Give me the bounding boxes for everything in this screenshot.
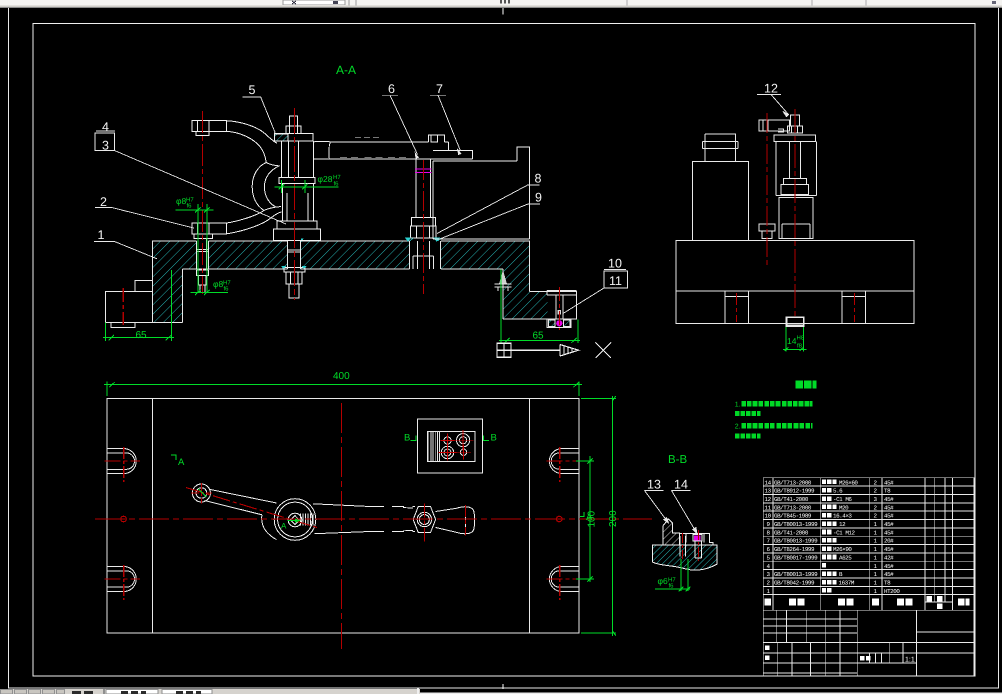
green A section marks bbox=[178, 457, 593, 531]
svg-text:3: 3 bbox=[102, 139, 109, 153]
svg-text:14: 14 bbox=[765, 479, 772, 486]
svg-text:H7: H7 bbox=[223, 280, 231, 287]
boss body lower bbox=[283, 183, 314, 221]
svg-text:1: 1 bbox=[98, 228, 105, 242]
svg-text:GB/T8042-1999: GB/T8042-1999 bbox=[774, 580, 815, 587]
right foot pin bottom box bbox=[547, 319, 571, 327]
table header blobs bbox=[765, 596, 970, 609]
svg-text:45#: 45# bbox=[884, 571, 894, 578]
pin nut below plate bbox=[196, 269, 208, 293]
lower column bbox=[779, 197, 813, 238]
arm after hex to end blob bbox=[436, 508, 457, 532]
clamp stud right (item 8/9 zone) bbox=[416, 159, 430, 218]
fork big mouth inner curve bbox=[264, 166, 279, 207]
svg-text:8: 8 bbox=[535, 172, 542, 186]
svg-text:GB/T80013-1999: GB/T80013-1999 bbox=[774, 571, 818, 578]
bottom model/layout tab strip bbox=[0, 688, 1002, 694]
svg-text:f6: f6 bbox=[187, 203, 193, 210]
left foot block bbox=[106, 281, 153, 323]
fork pivot pin body bbox=[198, 238, 206, 268]
red centerlines right view bbox=[736, 109, 854, 322]
right foot lip bbox=[547, 291, 576, 295]
pressure bar (item 6) bbox=[313, 135, 472, 241]
svg-text:φ28: φ28 bbox=[318, 174, 333, 184]
svg-text:4: 4 bbox=[102, 120, 109, 134]
fork bottom prong curves bbox=[226, 211, 264, 224]
svg-text:M20: M20 bbox=[839, 504, 849, 511]
svg-text:φ6: φ6 bbox=[658, 576, 669, 586]
fork top prong curves bbox=[226, 121, 276, 143]
svg-text:10: 10 bbox=[765, 513, 772, 520]
washer under fork pad (item 2) bbox=[194, 234, 212, 238]
left lower U-slot bbox=[107, 567, 137, 592]
name-column CJK blobs bbox=[822, 480, 837, 593]
svg-text:45#: 45# bbox=[884, 504, 894, 511]
svg-text:M26×60: M26×60 bbox=[839, 479, 858, 486]
svg-text:45#: 45# bbox=[884, 563, 894, 570]
boss sleeve (item 3) and clamp stud (item 5) bbox=[274, 116, 321, 298]
hatched base chunk bbox=[652, 545, 717, 570]
svg-text:13: 13 bbox=[647, 478, 661, 492]
dim phi28 bbox=[275, 180, 339, 193]
window divider tick top bbox=[502, 8, 504, 15]
svg-text:5.6: 5.6 bbox=[833, 488, 843, 495]
right support block (item 7 zone) bbox=[433, 147, 530, 239]
svg-text:A-A: A-A bbox=[336, 63, 356, 77]
svg-text:f6: f6 bbox=[669, 583, 675, 590]
svg-text:H7: H7 bbox=[186, 197, 194, 204]
fork top pad bbox=[192, 121, 226, 136]
svg-text:H8: H8 bbox=[797, 335, 805, 342]
boss body upper bbox=[281, 141, 313, 177]
workpiece lever in plan bbox=[192, 484, 474, 540]
green dimensions A-A bbox=[103, 180, 580, 343]
svg-text:φ8: φ8 bbox=[176, 196, 187, 206]
cyan chips at plate top near stud bbox=[406, 238, 441, 241]
svg-text:T8: T8 bbox=[884, 488, 891, 495]
svg-text:HT200: HT200 bbox=[884, 588, 900, 595]
svg-text:f8: f8 bbox=[797, 343, 803, 350]
svg-text:B-B: B-B bbox=[668, 454, 688, 466]
green dim B-B bbox=[655, 559, 690, 592]
svg-text:-C1 M12: -C1 M12 bbox=[833, 529, 856, 536]
svg-text:12: 12 bbox=[764, 82, 778, 96]
right long arm bbox=[313, 504, 370, 534]
svg-text:A: A bbox=[178, 457, 185, 468]
svg-text:GB/T80017-1999: GB/T80017-1999 bbox=[774, 554, 818, 561]
svg-text:2.: 2. bbox=[735, 423, 741, 430]
screw 14 bbox=[693, 535, 702, 542]
green dims plan bbox=[104, 382, 616, 637]
clamp stud pocket bbox=[410, 241, 441, 269]
svg-text:45#: 45# bbox=[884, 529, 894, 536]
green 14H8 dim bbox=[783, 327, 807, 351]
svg-text:45#: 45# bbox=[884, 513, 894, 520]
left foot bottom pad bbox=[111, 322, 135, 327]
svg-text:9: 9 bbox=[535, 191, 542, 205]
right foot pin bore bbox=[556, 295, 563, 319]
svg-text:12: 12 bbox=[765, 496, 772, 503]
svg-text:5: 5 bbox=[249, 83, 256, 97]
svg-text:GB/T8912-1999: GB/T8912-1999 bbox=[774, 488, 815, 495]
red centerlines plan bbox=[95, 403, 652, 649]
svg-text:T8: T8 bbox=[884, 580, 891, 587]
svg-text:M26×90: M26×90 bbox=[833, 546, 852, 553]
window divider tick bottom bbox=[502, 684, 504, 689]
right lower U-slot bbox=[549, 567, 579, 592]
boss base bbox=[274, 221, 321, 240]
part labels A-A bbox=[94, 95, 628, 313]
dim phi8 fork pin upper bbox=[176, 204, 214, 293]
svg-text:H7: H7 bbox=[333, 174, 341, 181]
svg-text:GB/T845-1989: GB/T845-1989 bbox=[774, 513, 812, 520]
svg-text:11: 11 bbox=[609, 274, 622, 288]
svg-text:GB/T8264-1999: GB/T8264-1999 bbox=[774, 546, 815, 553]
svg-text:1:1: 1:1 bbox=[905, 657, 915, 664]
svg-text:45#: 45# bbox=[884, 496, 894, 503]
small adjuster left bbox=[759, 224, 775, 239]
left support block bbox=[692, 161, 748, 240]
svg-text:45#: 45# bbox=[884, 546, 894, 553]
dim phi8 lower bbox=[191, 290, 229, 295]
svg-text:f6: f6 bbox=[224, 286, 230, 293]
fork big mouth outer curve bbox=[252, 163, 266, 211]
svg-text:GB/T713-2000: GB/T713-2000 bbox=[774, 504, 812, 511]
hidden dashes on bar bbox=[340, 156, 408, 158]
svg-text:A: A bbox=[586, 512, 593, 523]
hex nut on arm bbox=[413, 507, 435, 533]
B detail box bbox=[418, 419, 483, 473]
stud tip and nut bbox=[290, 116, 298, 126]
pin hole bbox=[680, 536, 685, 557]
svg-text:GB/T713-2000: GB/T713-2000 bbox=[774, 479, 812, 486]
serration comb bbox=[301, 513, 314, 525]
holes in plate (black gaps) bbox=[196, 240, 441, 271]
magenta pin dot bbox=[556, 320, 562, 326]
base block lower band with notches bbox=[676, 291, 914, 323]
svg-text:7: 7 bbox=[436, 82, 443, 96]
svg-text:200: 200 bbox=[608, 510, 619, 527]
boss mid flange bbox=[279, 178, 315, 184]
left support cap bbox=[703, 134, 739, 161]
middle stud hole walls bbox=[288, 241, 301, 269]
small bolt at right step bbox=[499, 270, 507, 284]
svg-text:A: A bbox=[281, 522, 287, 531]
base block upper bbox=[676, 241, 914, 292]
outline bbox=[153, 241, 577, 322]
svg-text:1637M: 1637M bbox=[839, 580, 855, 587]
svg-text:400: 400 bbox=[333, 371, 350, 382]
cyan hatched wedge at collar left bbox=[275, 134, 289, 141]
green center marks bbox=[198, 489, 301, 523]
svg-text:GB/T80013-1999: GB/T80013-1999 bbox=[774, 521, 818, 528]
left pin hole walls bbox=[196, 241, 208, 269]
stud washer+nut below plate bbox=[284, 267, 305, 298]
svg-text:GB/T41-2000: GB/T41-2000 bbox=[774, 496, 809, 503]
svg-text:GB/T80013-1999: GB/T80013-1999 bbox=[774, 538, 818, 545]
svg-text:10: 10 bbox=[608, 257, 622, 271]
svg-text:45#: 45# bbox=[884, 521, 894, 528]
wedge block item 13 bbox=[663, 519, 680, 545]
fork workpiece (item 4) bbox=[192, 121, 281, 293]
svg-text:B: B bbox=[491, 433, 497, 444]
svg-text:6: 6 bbox=[388, 82, 395, 96]
svg-text:20#: 20# bbox=[884, 538, 894, 545]
bolt below base bbox=[786, 317, 803, 325]
svg-text:42#: 42# bbox=[884, 554, 894, 561]
toolbar remnant strip at top bbox=[0, 0, 1002, 8]
svg-text:16.4×3: 16.4×3 bbox=[833, 513, 852, 520]
right 65 dim bbox=[499, 270, 580, 344]
left 65 dim bbox=[103, 270, 174, 341]
boss collar bbox=[275, 134, 314, 142]
svg-text:12: 12 bbox=[839, 521, 846, 528]
svg-text:A625: A625 bbox=[839, 554, 852, 561]
svg-text:φ8: φ8 bbox=[213, 279, 224, 289]
fork bottom pad bbox=[192, 223, 226, 234]
svg-text:f6: f6 bbox=[334, 181, 340, 188]
spring housing cylinder bbox=[774, 135, 815, 141]
svg-text:GB/T41-2000: GB/T41-2000 bbox=[774, 529, 809, 536]
label 12 bbox=[757, 95, 789, 117]
svg-text:65: 65 bbox=[533, 331, 545, 342]
base plate hatched main slab bbox=[153, 241, 577, 322]
svg-text:14: 14 bbox=[674, 478, 688, 492]
svg-text:1.: 1. bbox=[735, 402, 741, 409]
right upper U-slot bbox=[549, 449, 579, 474]
svg-text:B: B bbox=[404, 433, 410, 444]
red centerlines A-A bbox=[123, 108, 559, 330]
arm small-end to boss bbox=[205, 489, 277, 515]
svg-text:65: 65 bbox=[136, 330, 148, 341]
cyan chips at plate bottom bbox=[281, 266, 307, 269]
svg-text:H7: H7 bbox=[668, 577, 676, 584]
clamp plate with screw item 14 bbox=[680, 533, 713, 545]
plate outline bbox=[107, 399, 579, 634]
svg-text:45#: 45# bbox=[884, 479, 894, 486]
boss outer bbox=[274, 499, 316, 541]
left upper U-slot bbox=[107, 449, 137, 474]
clamp tower: top hardware bbox=[759, 120, 789, 131]
labels 13 14 bbox=[645, 491, 698, 534]
svg-text:13: 13 bbox=[765, 488, 772, 495]
table row texts bbox=[765, 479, 901, 595]
svg-text:-C1 M6: -C1 M6 bbox=[833, 496, 852, 503]
svg-text:14: 14 bbox=[787, 336, 797, 346]
svg-text:11: 11 bbox=[765, 504, 772, 511]
magenta slot lines bbox=[415, 169, 432, 172]
svg-text:2: 2 bbox=[100, 195, 107, 209]
